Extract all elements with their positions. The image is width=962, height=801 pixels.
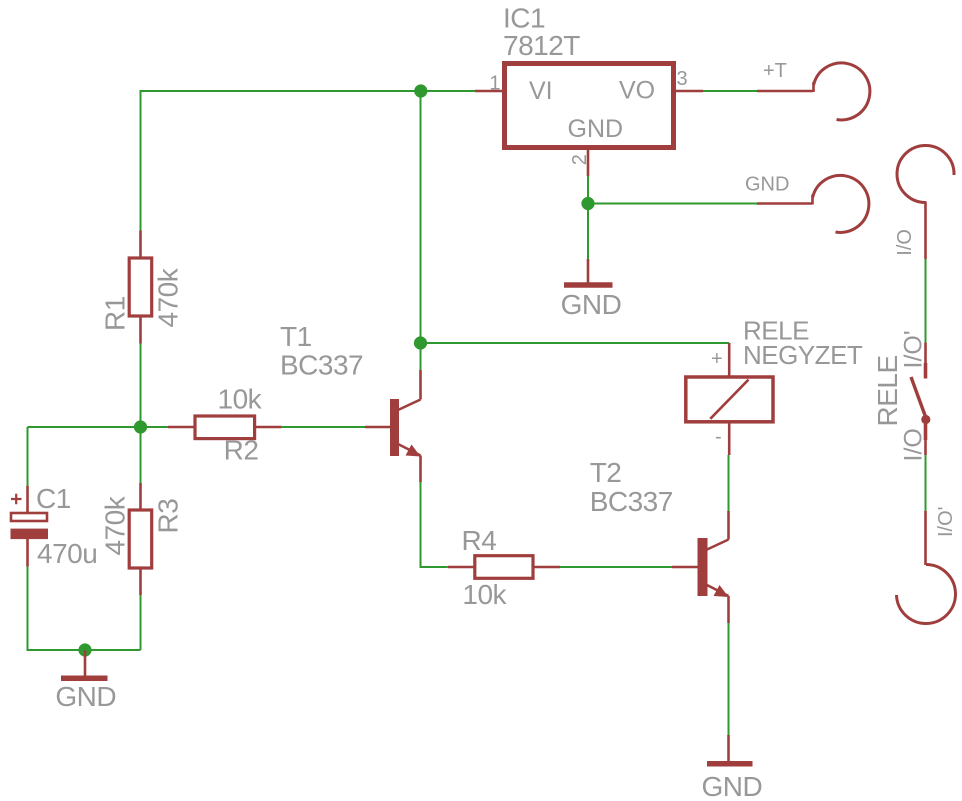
svg-text:VI: VI (529, 77, 553, 105)
node junction base net (134, 420, 147, 433)
connector pad GND (757, 175, 869, 232)
svg-text:10k: 10k (218, 384, 263, 415)
svg-text:GND: GND (702, 771, 763, 801)
svg-text:470u: 470u (37, 538, 97, 569)
svg-text:2: 2 (569, 154, 591, 165)
wire IC pin2 down (587, 176, 589, 204)
ground symbol middle (IC) (564, 259, 613, 285)
wire R4 to T2 base (533, 566, 672, 568)
wire T1 collector up (420, 343, 422, 370)
wire relay plus horizontal (421, 342, 730, 344)
svg-text:VO: VO (619, 77, 655, 105)
wire relay minus to T2 collector (728, 455, 730, 511)
svg-text:R1: R1 (100, 296, 131, 331)
wire R3 bottom to ground wire (140, 595, 142, 650)
svg-text:GND: GND (561, 289, 622, 320)
wire GND net vertical (587, 204, 589, 260)
ground symbol left (61, 650, 108, 678)
svg-text:7812T: 7812T (503, 30, 580, 61)
svg-text:GND: GND (745, 174, 789, 196)
svg-text:NEGYZET: NEGYZET (743, 340, 863, 370)
svg-text:GND: GND (568, 115, 624, 143)
svg-text:RELE: RELE (872, 355, 903, 426)
relay K1 coil (686, 343, 773, 455)
svg-text:3: 3 (677, 68, 688, 90)
resistor R3 (129, 483, 152, 595)
svg-text:+: + (711, 348, 723, 370)
svg-text:R3: R3 (153, 499, 184, 534)
wire R2 to T1 base (282, 426, 365, 428)
connector pad I/O top (897, 146, 954, 259)
wire left vertical top (140, 90, 142, 231)
transistor T1 BC337 (365, 370, 421, 482)
wire C1 top (27, 427, 29, 486)
node junction VCC/collector column (414, 84, 427, 97)
svg-text:+T: +T (763, 60, 787, 82)
wire base net R1/R2 horizontal (28, 426, 170, 428)
wire I/O top segment (925, 259, 927, 343)
svg-text:T1: T1 (280, 321, 312, 352)
wire collector column vertical (420, 91, 422, 343)
resistor R4 (448, 556, 560, 579)
svg-text:BC337: BC337 (280, 350, 363, 381)
resistor R1 (129, 231, 152, 344)
svg-text:R2: R2 (224, 435, 259, 466)
node junction ground left (78, 643, 91, 656)
wire bottom ground horizontal (28, 649, 141, 651)
svg-text:C1: C1 (36, 483, 71, 514)
transistor T2 BC337 (672, 511, 729, 623)
wire I/O bottom segment (925, 455, 927, 511)
node junction GND net (581, 197, 594, 210)
svg-text:I/O: I/O (900, 428, 928, 461)
connector pad +T (757, 63, 870, 120)
wire +T net (703, 90, 757, 92)
wire GND net horizontal (588, 203, 757, 205)
wire C1 bottom (27, 567, 29, 652)
wire junction to R3 top (140, 427, 142, 483)
svg-text:10k: 10k (462, 579, 507, 610)
svg-text:-: - (715, 426, 722, 448)
ground symbol right (T2) (707, 735, 753, 764)
node junction T1 collector (414, 336, 427, 349)
wire T1 emitter down (420, 482, 422, 567)
connector pad I/O bottom (897, 511, 956, 624)
svg-text:IC1: IC1 (503, 3, 545, 34)
svg-text:I/O: I/O (894, 229, 916, 256)
resistor R2 (168, 416, 282, 439)
svg-text:I/O': I/O' (900, 330, 928, 368)
svg-text:I/O': I/O' (935, 507, 957, 538)
IC U1 7812 regulator box (475, 64, 703, 177)
wire emitter to R4 horizontal (420, 566, 448, 568)
svg-text:470k: 470k (153, 267, 184, 327)
svg-text:R4: R4 (462, 525, 497, 556)
svg-text:T2: T2 (590, 457, 622, 488)
capacitor C1 (11, 486, 49, 567)
relay switch contact (911, 343, 930, 456)
wire R1 bottom to junction (140, 344, 142, 428)
svg-text:470k: 470k (100, 495, 131, 555)
svg-text:1: 1 (489, 73, 500, 95)
svg-text:BC337: BC337 (590, 486, 673, 517)
wire T2 emitter down (728, 623, 730, 735)
svg-text:GND: GND (55, 681, 116, 712)
wire VCC top horizontal (141, 90, 476, 92)
